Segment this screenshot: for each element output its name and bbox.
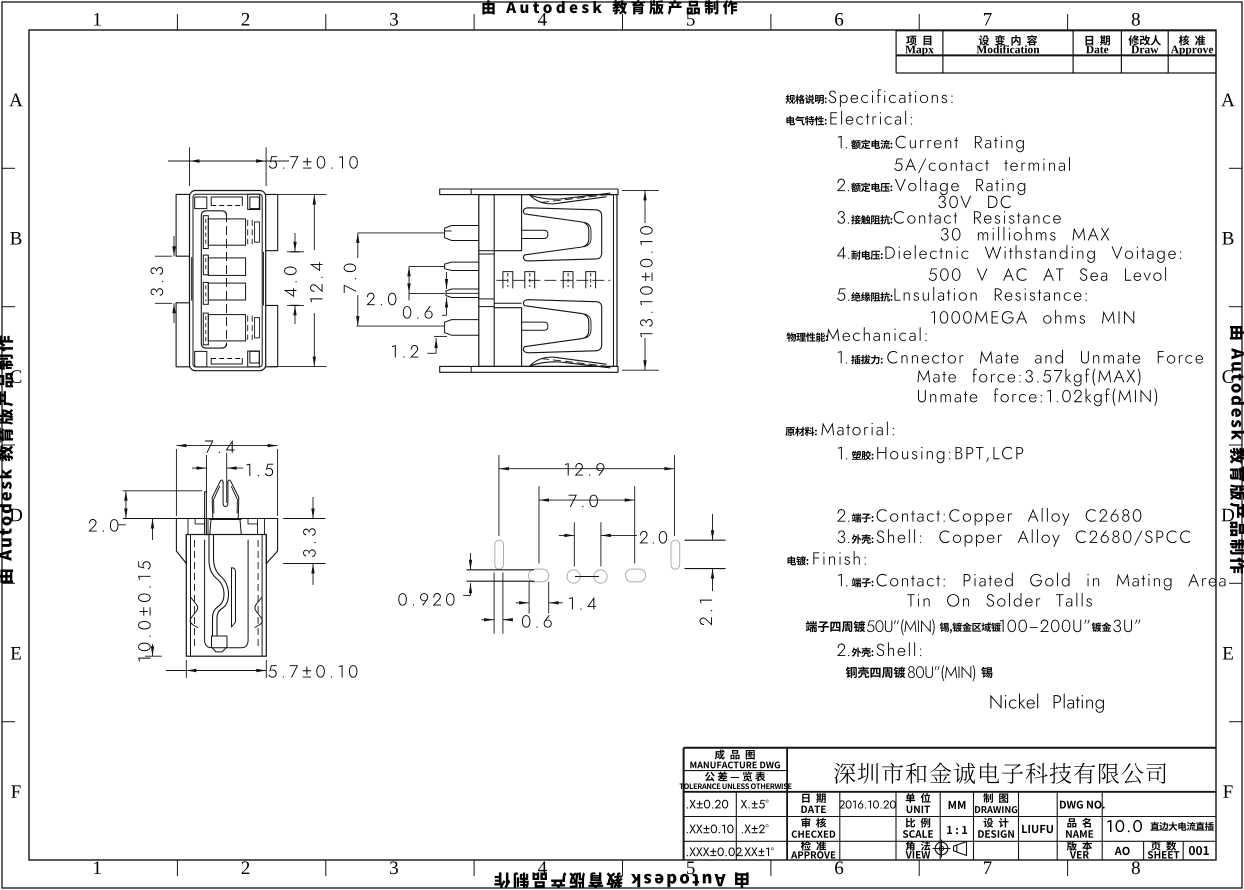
title block labels row1: [802, 793, 826, 803]
plating note line mixed: [806, 621, 865, 632]
spec text line: 1000MEGA ohms MIN: [931, 310, 1134, 324]
watermark top: 由 Autodesk 教育版产品制作: [482, 0, 737, 15]
view3 crown right prong: [228, 480, 239, 520]
view2 top spring contact clip: [523, 208, 601, 261]
revision table headers: [906, 36, 931, 46]
dim 5.7±0.10 top of view1: [189, 147, 191, 186]
dim 13.10±0.10 right of view2: [622, 189, 659, 191]
view1 tongue housing: [201, 211, 226, 348]
dim 5.7±0.10 bottom of view3: [185, 660, 187, 678]
title block main grid: [787, 816, 1216, 818]
spec numbered line: 2. Voltage Rating: [837, 179, 849, 192]
view2 top contact bar: [522, 230, 548, 238]
dim 7.0 left of view2: [358, 232, 444, 234]
view2 bottom-right rolled shell edge: [530, 357, 606, 366]
dim 2.1: [712, 514, 714, 540]
view1 corner square top-left: [195, 197, 207, 209]
view1: connector side view body: [190, 191, 266, 371]
dim 2.0 crown height left: [123, 490, 203, 492]
spec text line: Electrical:: [786, 116, 826, 125]
dim 3.3 left of view1: [155, 255, 172, 257]
view4 line between circle pads: [575, 576, 599, 578]
view1 corner square bottom-right: [248, 351, 260, 367]
spec text line: 5A/contact terminal: [894, 157, 1070, 173]
view3 crown thin back edge lines: [205, 492, 207, 535]
dim 0.6 view4: [481, 619, 494, 621]
view1 left flange top: [176, 194, 189, 256]
view4 horizontal reference lines 0.92: [467, 569, 534, 571]
title block labels row2: [801, 818, 826, 828]
dim 0.920: [470, 553, 472, 570]
view2 main body box: [479, 195, 617, 367]
view2 top spring inner corner lines: [585, 223, 592, 247]
view2 top-right rolled shell edge: [530, 195, 606, 204]
spec text line: Specifications:: [786, 94, 827, 103]
view3 crown center slot: [223, 482, 228, 507]
view3 dashed inner wall lines: [194, 540, 196, 650]
view3 left J hook: [190, 597, 197, 628]
watermark right (rotated 90): [1230, 326, 1244, 573]
view1 tongue right edge dashed: [226, 213, 228, 346]
spec numbered line: 1. Current Rating: [838, 136, 847, 149]
dim 12.4 right of view1: [269, 194, 327, 196]
view3 inner cavity: [205, 540, 249, 648]
revision table grid: [896, 30, 1216, 32]
dim 0.6 pin3: [446, 272, 448, 289]
view1 contact strips and pads: [203, 216, 208, 249]
view2 center dashed line: [496, 279, 610, 281]
spec text line: Finish:: [788, 556, 809, 565]
spec text line: Nickel Plating: [990, 694, 1104, 713]
watermark bottom (rotated 180): [494, 872, 748, 888]
spec numbered line: 4. Dielectnic Withstanding Voitage:: [837, 247, 850, 259]
view2 lower inner block: [494, 308, 521, 367]
view1 right flange bottom: [266, 305, 278, 366]
tolerance values grid: [735, 792, 737, 860]
view3 body box: [186, 535, 266, 657]
zone row letters left: [9, 94, 22, 107]
view1 right flange top: [266, 194, 278, 250]
view1 left flange bottom: [176, 303, 189, 367]
view1 left notch edge: [191, 257, 193, 300]
spec text line: Mate force:3.57kgf(MAX): [917, 368, 1140, 386]
view2 pin 3: [446, 289, 479, 298]
view2 pin 4: [445, 320, 479, 336]
dim 3.3 right of view3: [283, 518, 325, 520]
dim 4.0 right of view1: [287, 251, 304, 253]
dim 1.2 pin4: [434, 335, 447, 337]
zone tick marks: [176, 14, 178, 30]
view3 crown pedestal: [210, 520, 241, 534]
dim 1.5 crown slot: [206, 455, 208, 492]
view2 bottom contact bar: [522, 322, 548, 330]
view3 strip notches: [188, 519, 265, 535]
title block outline: [684, 747, 1216, 749]
title block left column: manufacture dwg / tolerance: [786, 748, 788, 860]
zone row letters right: [1221, 94, 1234, 107]
spec text line: Tin On Solder Talls: [907, 593, 1092, 607]
view1 corner square bottom-left: [195, 351, 207, 366]
view1 top slot with dashed edge: [211, 197, 242, 206]
view2 pin 2: [445, 262, 479, 270]
dim 2.0 pins: [409, 265, 445, 267]
spec numbered line: 1. Cnnector Mate and Unmate Force: [838, 351, 847, 364]
view3 center contact post: [232, 568, 236, 627]
view1 bottom slot with dashed edge: [211, 359, 242, 365]
view4 shell pin capsule left: [495, 540, 504, 569]
title block labels row3: [801, 841, 826, 851]
dim 7.4 top of view3: [175, 449, 177, 516]
spec text line: Unmate force:1.02kgf(MIN): [918, 388, 1157, 406]
view4 0.6 extension lines: [493, 573, 495, 634]
company name 深圳市和金诚电子科技有限公司: [834, 763, 1166, 784]
spec numbered line: 3. Contact Resistance: [837, 211, 849, 224]
spec numbered line: 5. Lnsulation Resistance:: [837, 288, 849, 300]
view3 S-curve spring wire: [209, 535, 224, 637]
view2 bottom spring contact clip (mirror): [523, 300, 601, 353]
view4 pad circle 3: [594, 570, 607, 583]
dim 1.4: [528, 582, 530, 614]
third angle projection symbol: [935, 842, 948, 855]
spec text line: 500 V AC AT Sea Levol: [929, 267, 1166, 281]
view4 shell pin capsule right: [671, 540, 680, 569]
zone column numbers bottom: [94, 861, 101, 874]
view1 corner square top-right: [248, 194, 260, 209]
spec numbered line: 2. Shell:: [837, 644, 849, 657]
view2 upper inner block: [494, 195, 521, 251]
watermark left (rotated -90): [0, 336, 13, 583]
view4 pad capsule 4: [625, 569, 645, 582]
view1 right notch edge: [262, 252, 264, 306]
spec numbered line: 1. Housing:BPT,LCP: [838, 447, 847, 460]
view2 pin 1: [445, 226, 479, 241]
view3 crown left prong: [212, 480, 223, 520]
zone column numbers top: [94, 13, 101, 26]
view2 left pin block column: [493, 195, 495, 367]
spec text line: Matorial:: [785, 427, 816, 436]
spec text line: Mechanical:: [787, 332, 828, 341]
dim 2.0 view4: [573, 522, 575, 566]
dim 12.9: [498, 455, 500, 536]
view4 right reference lines 2.1: [685, 539, 726, 541]
view2 contact slots on centerline: [503, 272, 513, 288]
view4 pad circle 2: [567, 570, 580, 583]
view4 pad capsule 1: [529, 569, 549, 582]
spec numbered line: 3. Shell: Copper Alloy C2680/SPCC: [838, 530, 850, 543]
spec numbered line: 2. Contact:Copper Alloy C2680: [837, 509, 849, 522]
view2 bottom cap strip: [440, 366, 618, 372]
dim 7.0 view4: [538, 486, 540, 563]
view3 flange strip: [176, 519, 277, 564]
view3 right J hook: [255, 597, 262, 628]
spec text line: 30V DC: [938, 196, 1010, 209]
view2 top cap strip: [440, 189, 618, 195]
spec numbered line: 1. Contact: Piated Gold in Mating Area: [838, 574, 847, 587]
spec text line: 30 milliohms MAX: [941, 227, 1109, 241]
dim 10.0±0.15 left of view3: [145, 655, 162, 657]
view3 bottom pad trapezoid: [212, 636, 228, 652]
